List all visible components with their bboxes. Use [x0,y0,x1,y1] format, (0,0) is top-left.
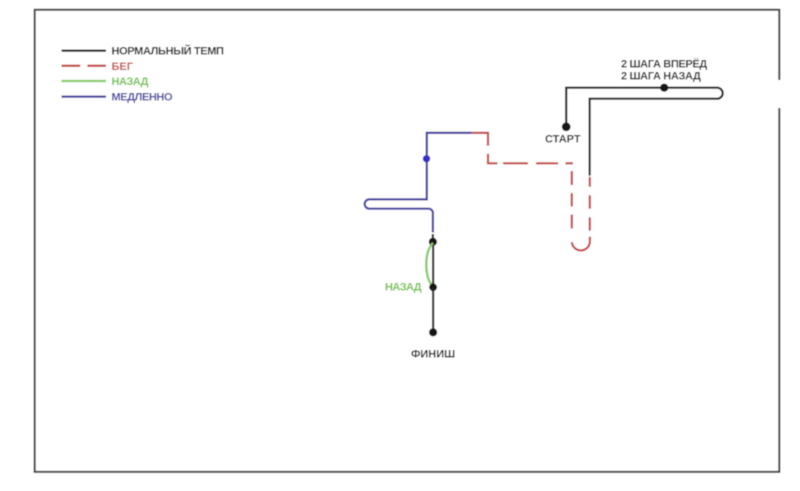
black path: normal tempo from START up, right, U-turn back left and down [566,88,722,176]
svg-text:2 ШАГА НАЗАД: 2 ШАГА НАЗАД [621,71,701,83]
legend line: normal tempo (black) [62,49,107,51]
red run dash (left vertical 3) [571,215,573,229]
legend line: backwards (green) [62,80,107,82]
red run solid U-turn bottom [572,237,590,251]
red run dash (right vertical 2) [589,195,591,208]
svg-text:ФИНИШ: ФИНИШ [411,349,455,361]
svg-text:НОРМАЛЬНЫЙ ТЕМП: НОРМАЛЬНЫЙ ТЕМП [112,45,225,58]
svg-text:СТАРТ: СТАРТ [545,134,581,146]
node: dot 2 [429,283,437,291]
node: START dot [562,122,571,131]
black line between dot2 and dot3 [432,287,434,332]
svg-text:2 ШАГА ВПЕРЁД: 2 ШАГА ВПЕРЁД [621,58,707,71]
red run segment: solid L from blue junction over corner [472,133,488,146]
legend dash 2: run (red) [87,65,106,67]
red run segment: L dash into lower corner [488,154,498,164]
node: dot 1 (top of backwards section) [429,238,437,246]
node: dot 3 (finish) [429,328,437,336]
red run dash (right vertical 1) [589,177,591,187]
red run dash (horizontal 3 into corner) [566,162,573,164]
blue path: slow segment with left U-turn [365,133,472,233]
red run dash (left vertical 2) [571,193,573,207]
green backwards arc [426,243,433,287]
red run dash (left vertical 1) [571,171,573,185]
red run dash (horizontal 2) [536,162,558,164]
legend line: slow (blue) [62,95,107,97]
legend dash 1: run (red) [62,65,81,67]
black connector into first bottom dot [432,234,434,242]
black line between dot1 and dot2 [432,242,434,287]
svg-text:МЕДЛЕННО: МЕДЛЕННО [112,92,173,104]
svg-text:НАЗАД: НАЗАД [112,76,149,88]
red run dash (right vertical 3) [589,217,591,230]
node: blue dot on slow path [423,155,430,162]
svg-text:НАЗАД: НАЗАД [385,282,422,294]
svg-text:БЕГ: БЕГ [112,61,134,73]
red run dash (horizontal 1) [503,162,528,164]
node: dot on top line [660,84,668,92]
